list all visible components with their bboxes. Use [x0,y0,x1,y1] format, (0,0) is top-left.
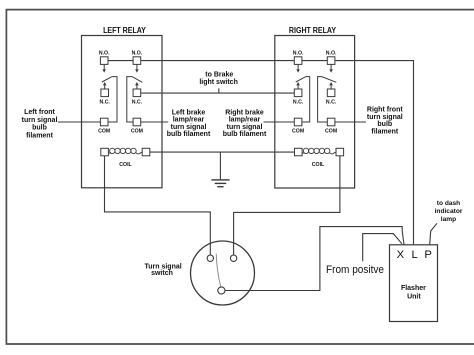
svg-text:lamp: lamp [441,216,456,223]
svg-text:switch: switch [151,270,173,277]
switch contact left [207,255,213,261]
label to dash indicator lamp [435,200,463,223]
svg-text:filament: filament [26,132,54,139]
left relay box [82,36,163,188]
coil terminal right, right relay [336,148,344,156]
label to Brake light switch [199,72,238,87]
svg-text:P: P [424,249,432,261]
svg-text:bulb filament: bulb filament [223,131,267,138]
label Turn signal switch [144,263,181,277]
arrow NC1 right [297,85,299,89]
svg-text:light switch: light switch [199,79,238,86]
svg-text:bulb: bulb [377,121,392,128]
svg-text:N.O.: N.O. [132,51,143,57]
svg-text:N.O.: N.O. [326,51,337,57]
svg-text:COM: COM [98,128,110,134]
coil right relay [302,148,336,154]
svg-text:Left brake: Left brake [172,109,206,116]
wire coil link line [150,151,295,153]
N.C. square 2 right relay [327,89,335,97]
svg-text:Right front: Right front [367,106,403,113]
label Flasher Unit [401,285,426,300]
arrow pole1 right [297,64,299,69]
label Right front turn signal bulb filament [367,106,403,135]
wire COM1 left relay to left label [58,121,100,123]
svg-text:Unit: Unit [407,293,421,300]
wire from positive to flasher X [363,234,402,262]
wire COM2 left relay to Left brake label [141,121,169,123]
up arrows above N.C. squares [103,82,333,89]
coil terminal left, right relay [295,148,303,156]
svg-text:bulb: bulb [32,125,47,132]
N.O. square 1 right relay [294,57,302,65]
N.C. square 2 left relay [133,89,141,97]
svg-text:From positve: From positve [326,264,384,276]
wire N.O. bus line to flasher L [104,61,413,245]
wire brake line (NC2 left relay to NC1 right relay) [141,92,295,94]
svg-text:N.O.: N.O. [99,51,110,57]
wire COM1 right relay to Right brake label [264,121,295,123]
label Left brake lamp/rear turn signal bulb filament [167,109,211,138]
svg-text:indicator: indicator [435,208,463,215]
svg-text:COM: COM [131,128,143,134]
blade pole1 right relay [296,77,310,122]
svg-text:L: L [411,249,417,261]
switch contact right [230,255,236,261]
tiny terminal labels [98,51,337,169]
switch blade [216,254,221,287]
svg-text:lamp/rear: lamp/rear [173,117,205,124]
flasher unit box [390,245,438,322]
turn signal switch circle [191,241,255,305]
blade pole2 left relay [127,77,143,122]
svg-text:COM: COM [325,128,337,134]
svg-text:turn signal: turn signal [367,114,403,121]
wire COM2 right relay to Right front label [335,121,366,123]
wire flasher P to dash indicator lamp [430,223,437,244]
arrow pole2 right [330,64,332,69]
switch contact bottom [218,287,225,294]
arrow NC2 right [330,85,332,89]
label Left front turn signal bulb filament [22,109,58,139]
svg-text:COIL: COIL [312,162,325,168]
N.O. square 2 left relay [133,57,141,65]
wire tick to brake label [218,88,220,93]
blade pole1 left relay [102,77,117,122]
COM square 2 left relay [133,118,141,126]
svg-text:N.C.: N.C. [100,100,111,106]
wire switch bottom contact to flasher X [225,227,404,291]
wire right coil down to switch right contact [234,156,340,255]
wire ground tap [219,152,221,179]
COM square 1 left relay [100,118,108,126]
svg-text:N.C.: N.C. [132,100,143,106]
arrow NC2 left [136,85,138,89]
COM square 1 right relay [294,118,302,126]
svg-text:COM: COM [292,128,304,134]
svg-text:N.C.: N.C. [293,100,304,106]
svg-text:N.C.: N.C. [326,100,337,106]
svg-text:N.O.: N.O. [293,51,304,57]
N.O. square 1 left relay [100,57,108,65]
svg-text:turn signal: turn signal [227,124,263,131]
svg-text:Flasher: Flasher [401,285,426,292]
down arrows below N.O. squares [102,64,333,72]
svg-text:RIGHT RELAY: RIGHT RELAY [289,25,336,35]
N.C. square 1 right relay [294,89,302,97]
arrow pole2 left [136,64,138,69]
coil left relay [108,148,142,154]
svg-text:turn signal: turn signal [22,117,58,124]
N.C. square 1 left relay [101,89,109,97]
terminal squares [100,57,343,156]
COM square 2 right relay [327,118,335,126]
arrow NC1 left [104,85,106,89]
svg-text:LEFT RELAY: LEFT RELAY [103,25,146,35]
svg-text:bulb filament: bulb filament [167,131,211,138]
arrow pole1 left [103,64,105,69]
svg-text:turn signal: turn signal [171,124,207,131]
svg-text:Left front: Left front [24,109,55,116]
svg-text:to dash: to dash [437,200,460,207]
blade pole2 right relay [318,77,337,122]
wire left coil down to switch left contact [105,156,211,255]
ground [211,179,229,187]
svg-text:to Brake: to Brake [205,72,233,79]
right relay box [275,36,355,189]
coil terminal left, left relay [101,148,109,156]
svg-text:lamp/rear: lamp/rear [229,117,261,124]
N.O. square 2 right relay [327,57,335,65]
coil terminal right, left relay [142,148,150,156]
label Right brake lamp/rear turn signal bulb filament [223,109,267,138]
svg-text:COIL: COIL [119,162,132,168]
svg-text:filament: filament [371,129,399,136]
svg-text:Right brake: Right brake [225,109,264,116]
svg-text:X: X [397,249,405,261]
